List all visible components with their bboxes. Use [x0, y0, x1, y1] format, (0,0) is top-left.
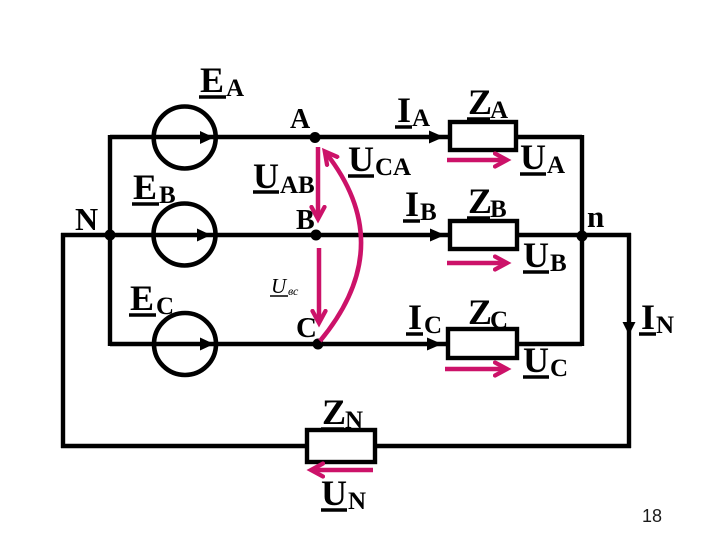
svg-text:U: U: [271, 274, 288, 298]
node A junction dot: [310, 132, 321, 143]
EMF source E_A arrow: [200, 131, 214, 144]
resistor Z_B box: [450, 221, 517, 249]
svg-text:N: N: [75, 201, 98, 237]
label U_B: [523, 235, 567, 277]
svg-text:E: E: [200, 60, 224, 100]
svg-text:C: C: [490, 307, 508, 334]
svg-text:C: C: [156, 293, 174, 320]
EMF source E_B arrow: [197, 229, 211, 242]
svg-text:E: E: [130, 278, 154, 318]
wire phase B horizontal: [61, 233, 582, 237]
voltage arrow U_N: [313, 468, 373, 473]
svg-text:U: U: [523, 340, 549, 380]
current I_C arrowhead: [427, 338, 442, 351]
voltage arrow U_A: [447, 158, 505, 163]
label E_A: [199, 60, 244, 102]
EMF source E_B circle: [154, 204, 216, 266]
svg-text:A: A: [226, 75, 244, 102]
label Z_C: [467, 292, 508, 334]
node n junction dot: [577, 231, 588, 242]
svg-text:CA: CA: [375, 154, 411, 181]
wire n to right stub: [582, 233, 631, 237]
label I_A: [395, 90, 430, 132]
node C junction dot: [313, 339, 324, 350]
svg-text:Z: Z: [468, 181, 492, 221]
label E_B: [132, 167, 176, 209]
svg-text:вс: вс: [288, 284, 299, 298]
label Z_N: [321, 392, 363, 434]
svg-text:B: B: [490, 196, 507, 223]
EMF source E_A circle: [154, 107, 216, 169]
voltage arrow U_AB vertical A to B: [316, 147, 321, 217]
svg-text:I: I: [408, 297, 422, 337]
label I_N: [639, 297, 674, 339]
svg-text:B: B: [159, 182, 176, 209]
label U_A: [520, 137, 565, 179]
node B junction dot: [311, 230, 322, 241]
wire phase C horizontal: [110, 342, 582, 346]
EMF source E_C arrow: [200, 338, 214, 351]
svg-text:B: B: [420, 199, 437, 226]
svg-text:E: E: [133, 167, 157, 207]
svg-text:U: U: [523, 235, 549, 275]
current I_B arrowhead: [430, 229, 445, 242]
voltage arrow U_BC vertical B to C: [317, 248, 322, 321]
svg-text:C: C: [424, 312, 442, 339]
svg-text:B: B: [550, 250, 567, 277]
label U_bc italic: [270, 274, 299, 298]
wire bottom neutral horizontal: [61, 444, 631, 448]
resistor Z_A box: [450, 122, 516, 150]
svg-text:C: C: [296, 312, 317, 344]
current I_N arrowhead: [623, 322, 636, 335]
svg-text:N: N: [656, 312, 674, 339]
svg-text:I: I: [405, 184, 419, 224]
svg-text:U: U: [520, 137, 546, 177]
svg-text:AB: AB: [280, 172, 315, 199]
wire phase A horizontal: [110, 135, 582, 139]
svg-text:I: I: [397, 90, 411, 130]
label E_C: [129, 278, 174, 320]
svg-text:N: N: [345, 407, 363, 434]
wire right load bus vertical: [580, 135, 584, 346]
svg-text:N: N: [348, 488, 366, 515]
EMF source E_C circle: [154, 313, 216, 375]
voltage arrow U_CA arc C to A: [320, 153, 361, 341]
svg-text:n: n: [587, 199, 604, 234]
svg-text:U: U: [348, 139, 374, 179]
svg-text:U: U: [253, 156, 279, 196]
svg-text:A: A: [412, 105, 430, 132]
label Z_A: [467, 82, 508, 124]
node N junction dot: [105, 230, 116, 241]
svg-text:Z: Z: [322, 392, 346, 432]
svg-text:A: A: [490, 97, 508, 124]
svg-text:U: U: [321, 473, 347, 513]
current I_A arrowhead: [429, 131, 444, 144]
wire far-right neutral vertical: [627, 233, 631, 448]
svg-text:A: A: [547, 152, 565, 179]
label U_N: [321, 473, 366, 515]
voltage arrow U_B: [447, 261, 505, 266]
label I_B: [403, 184, 437, 226]
label U_C: [523, 340, 568, 382]
label Z_B: [467, 181, 507, 223]
voltage arrow U_C: [445, 367, 505, 372]
label I_C: [406, 297, 442, 339]
resistor Z_C box: [448, 329, 517, 358]
label U_CA: [348, 139, 411, 181]
svg-text:Z: Z: [468, 292, 492, 332]
wire left source bus vertical: [108, 135, 112, 346]
svg-text:Z: Z: [468, 82, 492, 122]
svg-text:18: 18: [642, 506, 662, 526]
resistor Z_N box: [307, 430, 375, 462]
wire far-left neutral vertical: [61, 233, 65, 448]
svg-text:A: A: [290, 104, 311, 135]
label U_AB: [253, 156, 315, 199]
svg-text:B: B: [296, 205, 315, 236]
svg-text:C: C: [550, 355, 568, 382]
svg-text:I: I: [641, 297, 655, 337]
